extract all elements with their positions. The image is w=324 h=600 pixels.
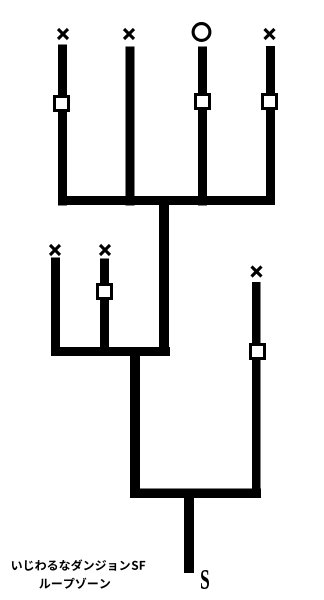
- wire branch-1 vertical: [58, 45, 67, 206]
- label S start: [201, 570, 209, 589]
- door square branch-B: [98, 285, 112, 299]
- wire branch-4 vertical: [266, 46, 275, 205]
- wire bottom horizontal bar: [130, 489, 261, 499]
- wire lower-left vertical: [130, 352, 140, 493]
- door square branch-4: [263, 95, 277, 109]
- wire start stem: [184, 494, 194, 573]
- wire top horizontal bar: [58, 196, 275, 205]
- X mark branch-4 tip: [265, 29, 275, 39]
- wire branch-3 vertical: [198, 47, 207, 206]
- door square branch-3: [196, 95, 210, 109]
- circle goal marker branch-3 tip: [193, 24, 210, 41]
- door square branch-1: [55, 97, 69, 111]
- wire level-2 horizontal bar: [51, 347, 170, 356]
- wire branch-A vertical: [51, 258, 60, 353]
- wire main trunk: [159, 200, 169, 356]
- text line 1 latin: SF: [132, 561, 146, 570]
- X mark branch-C tip: [252, 267, 262, 277]
- door square branch-C: [251, 345, 265, 359]
- wire branch-C vertical: [252, 282, 261, 498]
- X mark branch-B tip: [100, 245, 110, 255]
- wire branch-B vertical: [100, 259, 109, 353]
- X mark branch-2 tip: [124, 29, 134, 39]
- wire branch-2 vertical: [126, 47, 135, 206]
- X mark branch-A tip: [50, 245, 60, 255]
- X mark branch-1 tip: [58, 29, 68, 39]
- text line 2: ループゾーン: [39, 578, 110, 589]
- text line 1 kana: いじわるなダンジョン: [12, 559, 130, 571]
